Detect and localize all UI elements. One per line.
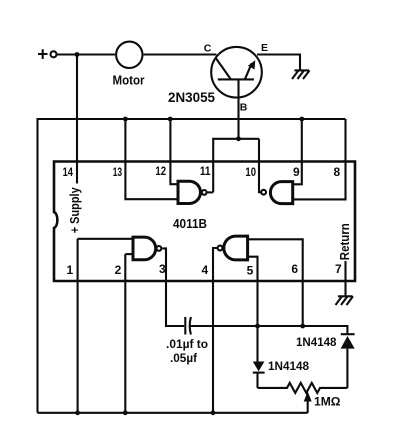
wire: left rail bbox=[36, 118, 38, 413]
wire: supply down to pin 14 bbox=[76, 55, 78, 184]
svg-text:1: 1 bbox=[66, 263, 73, 277]
svg-text:2: 2 bbox=[115, 263, 122, 277]
wire: gate U1b output to pin 10 bbox=[259, 139, 261, 192]
svg-text:1MΩ: 1MΩ bbox=[314, 395, 341, 409]
svg-text:B: B bbox=[240, 102, 248, 114]
gate U1c (pins 1,2 -> 3) bbox=[133, 237, 161, 260]
wire: pin 2 vertical to bottom rail bbox=[124, 254, 126, 413]
junction: rail pin 2 bbox=[123, 410, 128, 415]
svg-text:9: 9 bbox=[293, 165, 300, 179]
svg-text:E: E bbox=[261, 42, 268, 54]
transistor Q1 2N3055 bbox=[211, 47, 262, 98]
ground (emitter) bbox=[292, 70, 310, 79]
wire: gate U1c output pin 3 down to capacitor bbox=[162, 248, 184, 326]
diode D1 1N4148 (right, pointing up) bbox=[341, 334, 355, 388]
svg-text:+ Supply: + Supply bbox=[67, 187, 82, 234]
wire: gate U1a output to pin 11 bbox=[208, 191, 214, 193]
wire: gate U1d input to pin 6 down to cap wire bbox=[248, 239, 303, 326]
svg-text:C: C bbox=[204, 42, 212, 54]
svg-text:8: 8 bbox=[333, 165, 340, 179]
wire: gate U1d input to pin 5 down bbox=[248, 257, 258, 362]
wire: pin 1 vertical to bottom rail bbox=[77, 239, 79, 413]
wire: staple pins 11-10 bbox=[213, 139, 259, 193]
junction: rail pin 4 bbox=[211, 410, 216, 415]
svg-text:.05µf: .05µf bbox=[170, 351, 198, 365]
wire: motor to collector bbox=[144, 53, 217, 55]
potentiometer R1 1M body bbox=[258, 383, 348, 393]
junction: cap wire pin 6 bbox=[300, 324, 305, 329]
gate U1d (pins 5,6 -> 4) mirrored bbox=[218, 236, 248, 260]
wire: emitter to ground bbox=[257, 55, 300, 71]
wire: bottom rail bbox=[38, 412, 308, 414]
junction: rail pin 1 bbox=[75, 410, 80, 415]
+ terminal label bbox=[38, 49, 48, 59]
svg-text:5: 5 bbox=[247, 264, 254, 278]
junction: bus pin9 bbox=[299, 117, 304, 122]
junction: bus pin13 bbox=[123, 117, 128, 122]
gate U1a (pins 12,13 -> 11) bbox=[178, 181, 207, 203]
wire: capacitor to right corner bbox=[191, 326, 348, 334]
wire: top bus bbox=[38, 118, 346, 120]
ground (pin 7) bbox=[336, 296, 354, 305]
junction: cap wire pin 5 bbox=[255, 324, 260, 329]
wire: bus to pin 13 gate input bbox=[125, 119, 178, 199]
svg-text:14: 14 bbox=[63, 165, 74, 179]
junction: supply rail tap bbox=[75, 52, 80, 57]
svg-text:Return: Return bbox=[338, 223, 352, 260]
wire: pin 2 to gate U1c input bbox=[125, 253, 133, 255]
svg-text:12: 12 bbox=[155, 164, 166, 178]
wire: bus to pin 12 gate input bbox=[170, 119, 178, 184]
svg-text:1N4148: 1N4148 bbox=[268, 359, 309, 373]
wire: terminal to motor bbox=[57, 53, 115, 55]
wire: transistor base down bbox=[237, 79, 239, 138]
svg-text:7: 7 bbox=[335, 262, 342, 276]
svg-text:13: 13 bbox=[113, 165, 123, 179]
svg-text:10: 10 bbox=[245, 165, 256, 179]
potentiometer wiper arrow bbox=[304, 392, 312, 413]
diode D2 1N4148 (middle, pointing down) bbox=[253, 362, 265, 388]
svg-text:6: 6 bbox=[291, 262, 298, 276]
capacitor C1 plates bbox=[185, 317, 191, 335]
wire: pin 1 to gate U1c input bbox=[78, 238, 133, 240]
gate U1b (pins 8,9 -> 10) mirrored bbox=[261, 182, 293, 204]
svg-text:2N3055: 2N3055 bbox=[168, 90, 215, 105]
junction: base to staple bbox=[236, 136, 241, 141]
svg-text:4011B: 4011B bbox=[173, 217, 207, 231]
IC U1 4011B body bbox=[54, 162, 355, 282]
wire: bus corner to pin 8 gate input bbox=[293, 119, 346, 199]
svg-text:4: 4 bbox=[202, 263, 209, 277]
svg-text:11: 11 bbox=[200, 164, 211, 178]
wire: pin 7 to ground bbox=[344, 261, 346, 296]
junction: bus pin12 bbox=[168, 117, 173, 122]
wire: bus to pin 9 gate input bbox=[293, 119, 302, 184]
motor M1 bbox=[116, 42, 142, 68]
svg-text:.01µf to: .01µf to bbox=[166, 337, 208, 351]
+ terminal circle bbox=[51, 51, 57, 57]
svg-text:Motor: Motor bbox=[113, 73, 145, 87]
svg-text:1N4148: 1N4148 bbox=[296, 335, 337, 349]
wire: gate U1d output pin 4 to bottom rail bbox=[213, 248, 217, 413]
